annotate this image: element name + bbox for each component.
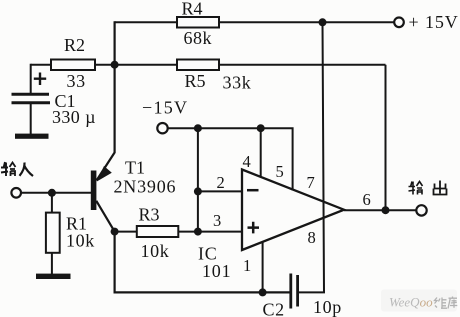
svg-text:8: 8 bbox=[308, 228, 316, 247]
wire pin2/pin3 vertical bbox=[197, 128, 199, 231]
C1 plus sign bbox=[34, 73, 46, 86]
capacitor C2 bbox=[291, 274, 298, 309]
svg-text:33: 33 bbox=[67, 71, 86, 91]
junction dot pin2 row bbox=[194, 187, 202, 195]
wire R2/R5 row bbox=[31, 64, 386, 66]
svg-text:7: 7 bbox=[307, 173, 315, 192]
junction dot -15V pin4 bbox=[257, 124, 265, 132]
label input chinese ru bbox=[20, 163, 34, 177]
svg-text:+ 15V: + 15V bbox=[409, 12, 459, 32]
svg-text:330 µ: 330 µ bbox=[52, 107, 96, 127]
ground below R1 bbox=[36, 274, 71, 279]
wire R1 branch bbox=[51, 193, 53, 274]
label input chinese shu bbox=[1, 162, 16, 176]
wire pin1 vertical bbox=[262, 242, 264, 293]
wire pin7 pin8 vertical bbox=[299, 22, 324, 292]
svg-text:1: 1 bbox=[243, 256, 251, 275]
junction dot -15V pin2 bbox=[194, 124, 202, 132]
wire +15V rail top bbox=[115, 21, 394, 23]
wire pin2 row bbox=[198, 190, 242, 192]
svg-text:33k: 33k bbox=[223, 73, 252, 93]
svg-text:4: 4 bbox=[243, 152, 251, 171]
resistor R5 bbox=[177, 60, 219, 71]
wire output row bbox=[344, 209, 417, 211]
watermark weiku chinese bbox=[435, 297, 458, 309]
svg-text:T1: T1 bbox=[125, 158, 145, 178]
svg-text:3: 3 bbox=[213, 211, 221, 230]
svg-text:WeeQoo: WeeQoo bbox=[389, 295, 433, 310]
junction dot collector R3 bbox=[111, 228, 119, 236]
junction dot base bbox=[48, 189, 56, 197]
resistor R2 bbox=[51, 60, 95, 71]
resistor R1 bbox=[46, 213, 60, 253]
ground below C1 bbox=[15, 134, 49, 139]
wire feedback vertical bbox=[385, 65, 387, 211]
svg-text:R4: R4 bbox=[182, 0, 203, 18]
svg-text:−15V: −15V bbox=[142, 98, 188, 118]
svg-text:R5: R5 bbox=[185, 71, 206, 91]
resistor R3 bbox=[137, 226, 179, 237]
junction dot pin1 C2 bbox=[259, 288, 267, 296]
op-amp plus sign bbox=[248, 222, 260, 234]
resistor R4 bbox=[177, 17, 219, 28]
svg-text:68k: 68k bbox=[184, 28, 213, 48]
op-amp U1 triangle bbox=[242, 170, 344, 251]
terminal output bbox=[416, 205, 426, 215]
svg-text:5: 5 bbox=[276, 162, 284, 181]
svg-text:6: 6 bbox=[363, 190, 371, 209]
junction dot R2 R5 node bbox=[111, 61, 119, 69]
wire -15V rail and pin5 drop bbox=[168, 128, 293, 190]
svg-text:2N3906: 2N3906 bbox=[114, 177, 177, 197]
svg-text:R2: R2 bbox=[64, 35, 85, 55]
wire input row bbox=[21, 192, 92, 194]
svg-text:10p: 10p bbox=[313, 297, 342, 317]
terminal +15V bbox=[394, 18, 404, 28]
junction dot R4 right bbox=[319, 18, 327, 26]
svg-text:C2: C2 bbox=[263, 300, 285, 317]
svg-text:10k: 10k bbox=[66, 230, 95, 250]
junction dot pin3 row bbox=[194, 228, 202, 236]
terminal -15V bbox=[157, 123, 167, 133]
wire pin4 drop bbox=[260, 128, 262, 177]
svg-text:10k: 10k bbox=[141, 241, 170, 261]
svg-text:R3: R3 bbox=[139, 204, 160, 224]
wire C1 branch bbox=[30, 64, 32, 135]
op-amp minus sign bbox=[247, 189, 259, 192]
transistor Q1 emitter arrow bbox=[97, 166, 112, 182]
watermark box bbox=[381, 290, 457, 312]
transistor Q1 base bar bbox=[91, 171, 97, 211]
label output chinese chu bbox=[434, 181, 447, 195]
capacitor C1 bbox=[12, 94, 51, 102]
wire pin3 row bbox=[178, 231, 242, 233]
svg-text:101: 101 bbox=[202, 261, 231, 281]
junction dot output node bbox=[382, 206, 390, 214]
svg-text:2: 2 bbox=[217, 173, 225, 192]
wire R3 left bbox=[115, 231, 137, 233]
wire left vertical R4-left to emitter bbox=[97, 21, 115, 180]
wire collector to bottom row bbox=[96, 201, 289, 293]
terminal input bbox=[11, 188, 21, 198]
label output chinese shu bbox=[409, 182, 423, 195]
